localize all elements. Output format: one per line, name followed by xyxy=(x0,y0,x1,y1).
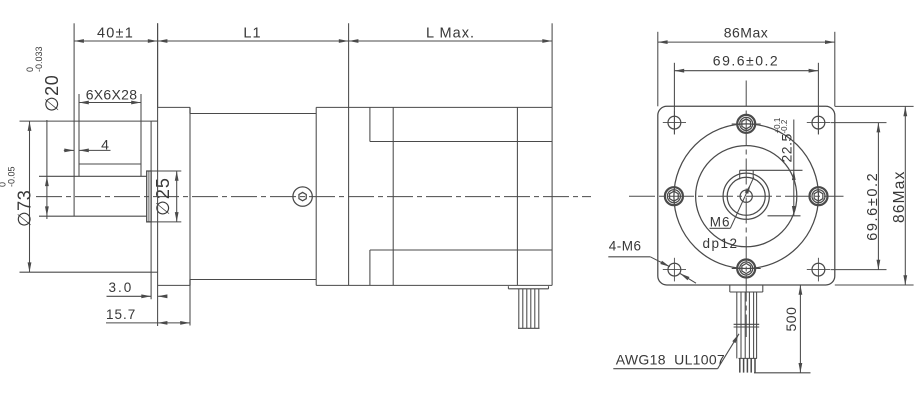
hex screw at 746,124 xyxy=(737,115,755,133)
4-M6 leader arrow xyxy=(660,261,670,267)
label 22.5 tolerance xyxy=(773,117,795,162)
lead stub left xyxy=(729,285,731,292)
label Ø20 tolerance xyxy=(25,46,62,112)
centerline left view xyxy=(36,196,591,198)
svg-text:4: 4 xyxy=(101,137,109,153)
dim line 69.6 right xyxy=(877,123,879,270)
key top edge xyxy=(79,163,141,165)
motor rear edge xyxy=(551,107,553,285)
extension motor rear top xyxy=(551,23,553,107)
svg-text:15.7: 15.7 xyxy=(106,307,136,322)
dim 4 right tail xyxy=(79,149,111,151)
motor front cap joint xyxy=(392,107,394,285)
barrel screw hex socket xyxy=(299,192,306,200)
svg-text:86Max: 86Max xyxy=(891,170,908,223)
lead stub bottom xyxy=(730,291,763,293)
svg-text:-0.2: -0.2 xyxy=(780,119,789,133)
hex screw at 674,196 xyxy=(665,187,683,205)
ext Ø25 bottom xyxy=(147,221,182,223)
label 69.6 right xyxy=(865,172,881,241)
motor top edge xyxy=(316,106,552,108)
ext Ø73 top xyxy=(20,120,152,122)
lead wires front xyxy=(736,292,738,358)
dim line 86Max right xyxy=(904,106,906,285)
corner hole at 818,123 xyxy=(812,116,825,129)
shaft end edge xyxy=(73,41,75,216)
motor corner bottom line xyxy=(370,249,552,251)
keyway right side xyxy=(752,170,754,179)
corner hole at 674,123 xyxy=(668,116,681,129)
dim line 69.6 top xyxy=(674,70,818,72)
svg-text:69.6±0.2: 69.6±0.2 xyxy=(713,53,779,69)
svg-text:-0.033: -0.033 xyxy=(34,46,44,72)
extension shaft end top xyxy=(73,23,75,41)
4-M6 second leader xyxy=(680,274,696,284)
arrow L1 right xyxy=(339,39,349,43)
disk right/flange left edge + ext xyxy=(157,23,159,326)
svg-text:L1: L1 xyxy=(243,25,261,41)
shaft collar Ø25 xyxy=(147,171,151,222)
motor corner line front top xyxy=(369,107,371,141)
svg-text:M6: M6 xyxy=(710,215,731,230)
key left edge + ext xyxy=(78,94,80,176)
svg-text:500: 500 xyxy=(783,307,799,332)
ext 69.6 left xyxy=(673,63,675,135)
dim line Ø25 xyxy=(176,171,178,222)
ext 86Max top-right xyxy=(835,105,914,107)
arrow L1 left xyxy=(158,39,168,43)
ext 86Max bottom-right xyxy=(835,284,914,286)
keyway left side xyxy=(739,170,741,179)
collar circle Ø25 xyxy=(723,173,769,219)
key right edge + ext xyxy=(140,94,142,176)
dim line 6X6X28 xyxy=(79,102,141,104)
ext 86Max right xyxy=(834,32,836,107)
shaft bottom edge + ext xyxy=(39,215,147,217)
svg-text:∅73: ∅73 xyxy=(15,190,35,227)
disk left edge + ext xyxy=(150,121,152,299)
barrel bottom xyxy=(190,279,316,281)
svg-text:6X6X28: 6X6X28 xyxy=(86,86,138,102)
motor face square xyxy=(658,106,835,285)
ext 500 bottom xyxy=(754,372,811,374)
lead boot xyxy=(508,288,548,290)
pilot circle xyxy=(696,146,797,247)
corner hole at 674,270 xyxy=(668,263,681,276)
ext 69.6 right bottom xyxy=(831,269,887,271)
arrow 40 right xyxy=(148,39,158,43)
lead stub right xyxy=(762,285,764,292)
arrow 40 left xyxy=(74,39,84,43)
ext Ø73 bottom xyxy=(20,271,152,273)
arrow LMax right xyxy=(542,39,552,43)
top screw cross tick xyxy=(732,123,761,125)
motor bottom edge xyxy=(316,284,552,286)
stripped wire ends xyxy=(739,358,741,372)
adapter/motor joint + extension xyxy=(348,23,350,285)
svg-text:4-M6: 4-M6 xyxy=(609,238,642,253)
4-M6 leader xyxy=(650,257,670,267)
svg-text:40±1: 40±1 xyxy=(97,25,134,41)
svg-text:22.5: 22.5 xyxy=(779,133,795,162)
svg-text:∅25: ∅25 xyxy=(153,177,173,216)
shaft top edge + ext xyxy=(39,175,147,177)
dim line 500 xyxy=(799,285,801,373)
ext 69.6 right xyxy=(817,63,819,135)
svg-text:dp12: dp12 xyxy=(703,236,739,251)
dim 4 left tail xyxy=(64,149,74,151)
dim line Ø20 xyxy=(46,120,48,219)
motor corner top line xyxy=(370,141,552,143)
ext 86Max left xyxy=(657,32,659,107)
AWG leader arrow xyxy=(732,334,739,343)
4-M6 second arrow xyxy=(680,274,689,281)
svg-text:69.6±0.2: 69.6±0.2 xyxy=(865,172,881,241)
motor rear cap joint xyxy=(516,107,518,285)
flange right edge + ext xyxy=(189,107,191,325)
lead wire end cap xyxy=(518,327,540,329)
ext Ø25 top xyxy=(147,170,182,172)
lead wire xyxy=(518,289,520,329)
bolt circle through screws xyxy=(674,124,819,269)
M6 leader xyxy=(730,177,754,228)
label 86Max right xyxy=(891,170,908,223)
motor corner line front bottom xyxy=(369,250,371,285)
dim line 22.5 xyxy=(793,120,795,216)
cable tie bottom xyxy=(734,326,760,328)
4-M6 underline xyxy=(608,256,650,258)
disk top edge xyxy=(151,120,158,122)
flange bottom xyxy=(158,284,190,286)
label Ø73 tolerance xyxy=(0,166,35,227)
label 500 xyxy=(783,307,799,332)
dim 15.7 shelf+line xyxy=(106,322,190,324)
barrel screw head xyxy=(293,187,312,206)
svg-text:∅20: ∅20 xyxy=(42,75,62,112)
ext 22.5 bottom xyxy=(768,215,801,217)
keyway top + ext for 22.5 xyxy=(740,169,803,171)
cable tie top xyxy=(734,323,760,325)
vertical centerline face xyxy=(745,81,747,338)
flange top xyxy=(158,106,190,108)
AWG underline xyxy=(613,368,717,370)
AWG leader xyxy=(718,334,739,369)
corner hole at 818,270 xyxy=(812,263,825,276)
dimension line top chain xyxy=(74,40,552,42)
barrel top xyxy=(190,113,316,115)
disk bottom edge xyxy=(151,271,158,273)
horizontal centerline face xyxy=(629,195,844,197)
ext 69.6 right top xyxy=(831,122,887,124)
svg-text:3.0: 3.0 xyxy=(109,280,134,295)
dim line 86Max top xyxy=(658,41,835,43)
M6 underline xyxy=(710,227,731,229)
M6 tapped hole xyxy=(740,190,752,202)
svg-text:-0.05: -0.05 xyxy=(7,166,17,187)
svg-text:L Max.: L Max. xyxy=(426,25,475,41)
svg-text:86Max: 86Max xyxy=(724,24,769,40)
collar inner line xyxy=(148,171,150,222)
arrow LMax left xyxy=(349,39,359,43)
hex screw at 818,196 xyxy=(810,187,828,205)
motor face / adapter edge xyxy=(315,107,317,285)
dim 3.0 shelf xyxy=(107,295,152,297)
extension flange top xyxy=(157,23,159,107)
dim 3.0 right tail xyxy=(158,295,164,297)
svg-text:AWG18 UL1007: AWG18 UL1007 xyxy=(616,352,725,368)
dim line Ø73 xyxy=(29,121,31,272)
M6 leader arrow xyxy=(745,184,751,194)
lead cap xyxy=(739,357,758,359)
hex screw at 746,268 xyxy=(737,260,755,278)
shaft circle Ø20 xyxy=(727,177,765,215)
bottom screw cross tick xyxy=(732,268,761,270)
